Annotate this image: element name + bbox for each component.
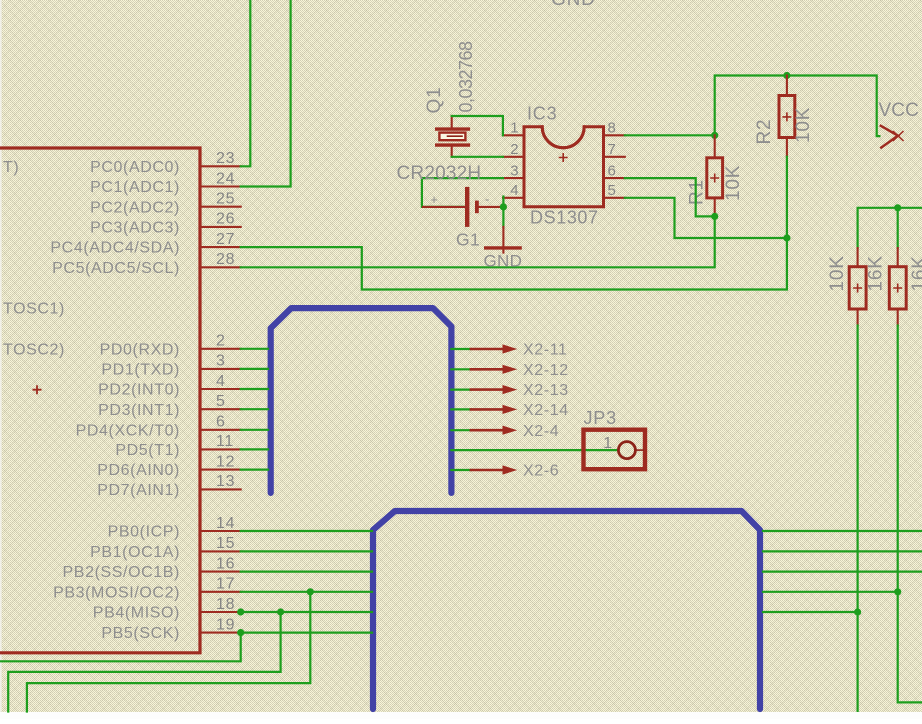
wire pin23 up to top bbox=[241, 0, 251, 166]
svg-text:R2: R2 bbox=[754, 119, 775, 145]
svg-text:PB3(MOSI/OC2): PB3(MOSI/OC2) bbox=[53, 584, 180, 601]
pin 16 of U1 bbox=[201, 571, 241, 573]
G1 long plate bbox=[465, 187, 469, 227]
power VCC supply arrow bbox=[881, 126, 898, 148]
wire IC3 pin3 to battery + bbox=[422, 178, 503, 207]
net arrow X2-13 bbox=[451, 389, 471, 391]
svg-text:2: 2 bbox=[510, 141, 519, 158]
svg-text:27: 27 bbox=[216, 231, 235, 248]
svg-text:0,032768: 0,032768 bbox=[456, 41, 476, 113]
svg-text:16K: 16K bbox=[866, 255, 887, 291]
Q1 bottom pin bbox=[451, 147, 453, 157]
pin 24 of U1 bbox=[201, 185, 241, 187]
svg-text:23: 23 bbox=[216, 150, 235, 167]
pin 13 of U1 bbox=[201, 488, 241, 490]
pin 17 of U1 bbox=[201, 591, 241, 593]
G1 short plate bbox=[475, 201, 479, 214]
svg-text:PD2(INT0): PD2(INT0) bbox=[98, 382, 180, 399]
junction bbox=[500, 203, 507, 210]
svg-text:PB0(ICP): PB0(ICP) bbox=[108, 524, 180, 541]
svg-text:PD3(INT1): PD3(INT1) bbox=[98, 402, 180, 419]
R1 top pin bbox=[714, 135, 716, 158]
svg-text:X2-13: X2-13 bbox=[523, 382, 569, 399]
svg-text:6: 6 bbox=[216, 414, 226, 431]
Q1 top pin bbox=[451, 116, 453, 127]
junction pin18 branch bbox=[277, 608, 284, 615]
svg-text:PB1(OC1A): PB1(OC1A) bbox=[90, 544, 180, 561]
svg-text:JP3: JP3 bbox=[584, 408, 617, 428]
IC3 pin 2 bbox=[503, 156, 523, 158]
svg-text:10K: 10K bbox=[723, 165, 744, 201]
svg-text:1: 1 bbox=[603, 435, 612, 452]
wire pin24 up to top bbox=[241, 0, 291, 187]
Q1 top plate bbox=[437, 127, 469, 130]
pin 3 of U1 bbox=[201, 368, 241, 370]
svg-text:PB5(SCK): PB5(SCK) bbox=[101, 625, 180, 642]
pin 2 of U1 bbox=[201, 348, 241, 350]
GND pin stem bbox=[502, 227, 504, 253]
G1 negative pin bbox=[479, 206, 504, 208]
svg-text:25: 25 bbox=[216, 191, 235, 208]
pin 23 of U1 bbox=[201, 165, 241, 167]
svg-text:11: 11 bbox=[216, 433, 234, 450]
wire pin 17 to lower module bbox=[241, 591, 372, 593]
pin 5 of U1 bbox=[201, 408, 241, 410]
wire lower module to right edge bbox=[763, 550, 922, 552]
svg-text:10K: 10K bbox=[827, 255, 848, 291]
svg-text:PC2(ADC2): PC2(ADC2) bbox=[90, 199, 180, 216]
svg-text:DS1307: DS1307 bbox=[530, 208, 599, 228]
IC3 pin 5 bbox=[605, 197, 625, 199]
Q1 body center dash bbox=[448, 135, 463, 137]
wire pin 19 to lower module bbox=[241, 631, 372, 633]
module X2 outline (blue, open bottom) bbox=[271, 308, 452, 493]
wire net to right resistors bbox=[858, 208, 922, 248]
net arrow X2-4 bbox=[451, 429, 471, 431]
svg-text:X2-4: X2-4 bbox=[523, 423, 559, 440]
svg-text:3: 3 bbox=[510, 162, 519, 179]
IC U1 (microcontroller, body clipped at left edge) bbox=[0, 148, 200, 653]
pin 25 of U1 bbox=[201, 206, 241, 208]
svg-text:3: 3 bbox=[216, 353, 226, 370]
svg-text:14: 14 bbox=[216, 515, 235, 532]
svg-text:PD1(TXD): PD1(TXD) bbox=[101, 362, 180, 379]
svg-text:5: 5 bbox=[608, 182, 617, 199]
junction MOSI at R4 wire bbox=[894, 588, 901, 595]
svg-text:X2-12: X2-12 bbox=[523, 362, 569, 379]
svg-text:PC3(ADC3): PC3(ADC3) bbox=[90, 220, 180, 237]
svg-text:PD5(T1): PD5(T1) bbox=[115, 442, 180, 459]
VCC pin cross bbox=[894, 132, 904, 141]
wire pin 15 to lower module bbox=[241, 550, 372, 552]
IC3 pin 3 bbox=[503, 177, 523, 179]
wire SDA net pin27 to R2 bbox=[241, 238, 787, 290]
wire pin 11 to module X2 bbox=[241, 448, 268, 450]
IC3 notch arc bbox=[542, 127, 584, 148]
R3 top pin bbox=[857, 248, 859, 267]
svg-text:13: 13 bbox=[216, 473, 235, 490]
R1 bottom pin bbox=[714, 198, 716, 217]
wire R3 bottom down bbox=[856, 326, 858, 711]
svg-text:10K: 10K bbox=[793, 107, 814, 143]
svg-text:PB2(SS/OC1B): PB2(SS/OC1B) bbox=[63, 564, 180, 581]
pin 14 of U1 bbox=[201, 530, 241, 532]
pin 15 of U1 bbox=[201, 550, 241, 552]
pin 12 of U1 bbox=[201, 469, 241, 471]
net arrow X2-6 bbox=[451, 469, 471, 471]
svg-text:T): T) bbox=[3, 159, 19, 176]
IC3 pin 8 bbox=[605, 134, 625, 136]
svg-text:2: 2 bbox=[216, 333, 226, 350]
op IC3 DS1307 body bbox=[524, 127, 604, 207]
GND bar bbox=[486, 246, 520, 249]
svg-text:17: 17 bbox=[216, 576, 235, 593]
wire R2 bottom to SDA bbox=[786, 157, 788, 238]
svg-text:+: + bbox=[430, 192, 438, 207]
svg-text:8: 8 bbox=[608, 120, 617, 137]
pin 6 of U1 bbox=[201, 429, 241, 431]
svg-text:PC0(ADC0): PC0(ADC0) bbox=[90, 159, 180, 176]
clipped power symbol + bbox=[33, 385, 42, 394]
svg-text:PC1(ADC1): PC1(ADC1) bbox=[90, 179, 180, 196]
G1 positive pin bbox=[423, 206, 465, 208]
window left border strip bbox=[0, 0, 2, 712]
R3 polarity + bbox=[853, 284, 862, 293]
svg-text:26: 26 bbox=[216, 211, 235, 228]
junction pin19 bbox=[237, 629, 244, 636]
pin 19 of U1 bbox=[201, 632, 241, 634]
wire Q1 to IC3 pin1 bbox=[452, 116, 503, 135]
wire lower module to R3 bbox=[763, 611, 858, 613]
pin 26 of U1 bbox=[201, 226, 241, 228]
wire module to JP3 pin1 bbox=[451, 449, 618, 451]
wire lower module to right edge bbox=[763, 530, 922, 532]
svg-text:X2-11: X2-11 bbox=[523, 342, 568, 359]
Q1 bottom plate bbox=[437, 143, 469, 146]
pin 4 of U1 bbox=[201, 388, 241, 390]
svg-text:16: 16 bbox=[216, 555, 235, 572]
pin 11 of U1 bbox=[201, 448, 241, 450]
net arrow X2-12 bbox=[451, 368, 471, 370]
R4 polarity + bbox=[893, 284, 902, 293]
IC3 pin 1 bbox=[503, 134, 523, 136]
R3 bottom pin bbox=[857, 309, 859, 326]
pin 18 of U1 bbox=[201, 611, 241, 613]
R1 polarity + bbox=[710, 174, 719, 183]
R2 top pin bbox=[786, 76, 788, 96]
svg-text:19: 19 bbox=[216, 616, 235, 633]
svg-text:7: 7 bbox=[608, 141, 617, 158]
svg-text:TOSC2): TOSC2) bbox=[3, 341, 65, 358]
junction SDA at R2 bbox=[783, 234, 790, 241]
junction VCC at R1 bbox=[711, 132, 718, 139]
IC3 pin 7 bbox=[605, 156, 625, 158]
svg-text:GND: GND bbox=[484, 252, 523, 271]
wire pin 14 to lower module bbox=[241, 530, 372, 532]
wire IC3 pin6 to R1 bottom bbox=[625, 178, 715, 216]
svg-text:16K: 16K bbox=[909, 255, 922, 291]
R2 bottom pin bbox=[786, 138, 788, 157]
svg-text:IC3: IC3 bbox=[527, 104, 557, 124]
wire IC3 pin5 to SDA junction bbox=[625, 198, 787, 238]
svg-text:PB4(MISO): PB4(MISO) bbox=[93, 605, 180, 622]
svg-text:5: 5 bbox=[216, 393, 226, 410]
svg-text:PD7(AIN1): PD7(AIN1) bbox=[97, 482, 180, 499]
svg-text:G1: G1 bbox=[456, 229, 480, 249]
wire pin 4 to module X2 bbox=[241, 388, 268, 390]
svg-text:4: 4 bbox=[510, 182, 519, 199]
IC3 pin 4 bbox=[503, 197, 523, 199]
wire pin 18 to lower module bbox=[241, 611, 372, 613]
svg-text:18: 18 bbox=[216, 596, 235, 613]
junction SCL at R1 bbox=[711, 213, 718, 220]
window bottom border strip bbox=[0, 712, 922, 719]
wire R4 bottom down and right bbox=[898, 326, 922, 703]
svg-text:-: - bbox=[485, 192, 490, 207]
wire battery minus to IC3 pin4 and gnd bbox=[502, 197, 504, 227]
wire lower module to R4 bbox=[763, 591, 898, 593]
IC3 polarity + bbox=[559, 153, 568, 162]
svg-text:6: 6 bbox=[608, 162, 617, 179]
module outline lower (blue, clipped at bottom) bbox=[373, 511, 760, 709]
R2 polarity + bbox=[782, 112, 791, 121]
svg-text:PD0(RXD): PD0(RXD) bbox=[100, 341, 180, 358]
IC3 pin 6 bbox=[605, 177, 625, 179]
R4 bottom pin bbox=[897, 309, 899, 326]
wire lower module to right edge bbox=[763, 570, 922, 572]
junction at R4 top bbox=[894, 204, 901, 211]
wire MISO return to bottom left bbox=[8, 612, 280, 712]
svg-text:15: 15 bbox=[216, 535, 235, 552]
svg-text:Q1: Q1 bbox=[424, 87, 445, 114]
svg-text:12: 12 bbox=[216, 453, 235, 470]
junction pin18 at pin bbox=[237, 608, 244, 615]
svg-text:VCC: VCC bbox=[879, 100, 919, 121]
net arrow X2-11 bbox=[451, 348, 471, 350]
wire Q1 to IC3 pin2 bbox=[452, 156, 503, 158]
svg-text:PD6(AIN0): PD6(AIN0) bbox=[97, 462, 180, 479]
wire pin 6 to module X2 bbox=[241, 429, 268, 431]
junction pin17 branch bbox=[307, 588, 314, 595]
wire VCC rail to supply arrow bbox=[715, 76, 880, 137]
JP3 pin stub bbox=[635, 449, 643, 451]
R4 top pin bbox=[897, 248, 899, 267]
wire IC3 pin8 to R1 top bbox=[625, 134, 715, 136]
wire SCL net pin28 to R1 bbox=[241, 216, 715, 267]
wire pin 2 to module X2 bbox=[241, 348, 268, 350]
wire MOSI return to bottom left bbox=[27, 592, 310, 712]
svg-text:R1: R1 bbox=[687, 179, 708, 205]
svg-text:24: 24 bbox=[216, 170, 235, 187]
wire pin 3 to module X2 bbox=[241, 368, 268, 370]
svg-text:28: 28 bbox=[216, 251, 235, 268]
svg-text:GND: GND bbox=[551, 0, 596, 10]
wire pin 12 to module X2 bbox=[241, 469, 268, 471]
svg-text:CR2032H: CR2032H bbox=[397, 163, 482, 184]
svg-text:PD4(XCK/T0): PD4(XCK/T0) bbox=[76, 422, 180, 439]
pin 28 of U1 bbox=[201, 266, 241, 268]
svg-text:TOSC1): TOSC1) bbox=[3, 301, 65, 318]
junction VCC at R2 bbox=[783, 72, 790, 79]
svg-text:PC4(ADC4/SDA): PC4(ADC4/SDA) bbox=[50, 240, 180, 257]
pin 27 of U1 bbox=[201, 246, 241, 248]
wire pin 16 to lower module bbox=[241, 570, 372, 572]
junction MISO at R3 wire bbox=[854, 608, 861, 615]
wire SCK return to left edge bbox=[0, 633, 241, 662]
wire pin 5 to module X2 bbox=[241, 408, 268, 410]
wire to R4 top bbox=[897, 208, 899, 248]
svg-text:4: 4 bbox=[216, 373, 226, 390]
svg-text:X2-14: X2-14 bbox=[523, 402, 569, 419]
svg-text:PC5(ADC5/SCL): PC5(ADC5/SCL) bbox=[52, 260, 180, 277]
svg-text:1: 1 bbox=[510, 120, 519, 137]
svg-text:X2-6: X2-6 bbox=[523, 463, 559, 480]
net arrow X2-14 bbox=[451, 408, 471, 410]
